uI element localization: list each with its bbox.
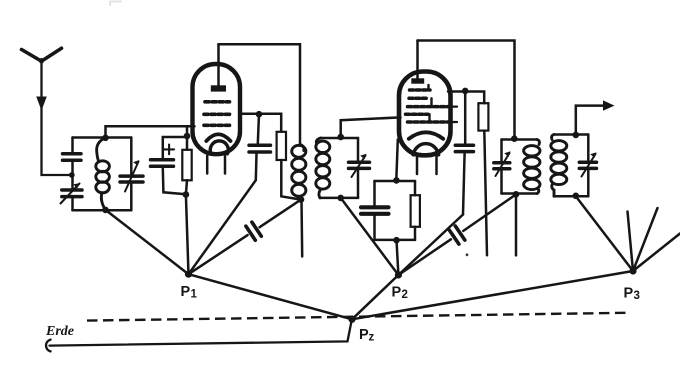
node L2 bottom — [298, 196, 305, 203]
resistor R4 — [411, 181, 420, 240]
wire R3 bottom stub — [484, 131, 487, 256]
capacitor C8 — [455, 91, 473, 215]
wire P1 to tank1 bottom — [106, 210, 189, 274]
earth lead — [46, 340, 51, 352]
grid rows U2 — [406, 90, 450, 122]
wire box2 bottom to P3 — [576, 196, 633, 271]
anode U1 — [211, 85, 226, 91]
wire P2 to tank2 bottom — [341, 198, 399, 275]
inductor L4 — [524, 140, 540, 194]
capacitor C5 — [249, 114, 271, 180]
node tank2 top — [337, 134, 344, 141]
wire P1 to C5 — [189, 180, 256, 274]
node tank2 bottom — [337, 195, 344, 202]
ink speck — [466, 253, 469, 256]
label Pz — [359, 327, 375, 344]
inductor L3 — [316, 138, 330, 198]
node screen U1 — [256, 111, 263, 118]
resistor R3 — [478, 103, 488, 130]
variable capacitor C7 — [349, 138, 370, 198]
IF box2 rails — [554, 135, 588, 197]
svg-text:P: P — [181, 284, 191, 300]
heater dome U1 — [210, 141, 228, 154]
capacitor C10 — [449, 226, 465, 244]
wire screen U2 — [448, 92, 484, 104]
wire P2 to C8 — [398, 215, 463, 276]
heater dome U2 — [413, 144, 438, 155]
wire stub B+ 2 — [515, 194, 518, 255]
wire P2 to Pz — [352, 275, 398, 319]
wire P1 to Pz — [189, 274, 353, 319]
heater pins U2 — [417, 156, 437, 174]
grid g1 row — [204, 102, 231, 126]
label P3 — [624, 286, 640, 303]
variable capacitor C3 — [120, 138, 143, 211]
inductor L1 — [96, 138, 110, 210]
wire R2 bottom — [281, 160, 301, 200]
tank 1 top rail — [73, 136, 132, 139]
resistor R2 — [277, 132, 286, 160]
label P2 — [392, 285, 408, 302]
node P2 — [395, 271, 402, 278]
wire P3 to Pz — [352, 271, 633, 319]
cathode U1 — [206, 134, 230, 141]
svg-text:P: P — [624, 286, 634, 302]
wire output arrow — [576, 106, 606, 135]
resistor R1 — [182, 136, 191, 194]
tank 1 bottom rail — [73, 209, 132, 212]
wire tank1 top to grid of U1 — [106, 126, 195, 138]
node box2 top — [573, 132, 580, 139]
capacitor C9 — [361, 181, 389, 240]
svg-text:P: P — [392, 285, 402, 301]
wire tank2 to grid U2 — [341, 117, 401, 138]
node RC2 top — [393, 177, 400, 184]
wire P2 to box1 bottom via C10 — [398, 194, 516, 275]
node P1 — [185, 271, 192, 278]
variable capacitor C12 — [579, 135, 596, 197]
svg-text:2: 2 — [402, 289, 408, 301]
capacitor C6 — [246, 222, 261, 240]
antenna — [22, 48, 72, 175]
heater pins U1 — [207, 156, 225, 174]
tank 1 : antenna coupling cap C1 — [63, 138, 82, 176]
node box2 bottom — [573, 193, 580, 200]
wire stub B+ 1 — [300, 200, 303, 257]
scan artifact — [110, 2, 121, 6]
wire anode U2 top rail — [418, 41, 515, 138]
node tank1 top — [102, 135, 109, 142]
node P3 — [629, 267, 636, 274]
inductor L5 — [551, 135, 567, 197]
node box1 top — [511, 135, 518, 142]
tank 2 bottom rail — [320, 197, 358, 200]
node antenna tap — [69, 172, 75, 178]
node screen U2 — [462, 88, 469, 95]
node cathode junction — [183, 191, 190, 198]
wire P1 to cathode junction — [186, 195, 189, 275]
node Pz — [348, 316, 355, 323]
cathode U2 — [409, 132, 443, 139]
inductor L2 plate coil — [292, 145, 306, 200]
node RC2 bottom — [393, 237, 400, 244]
variable capacitor C11 — [494, 140, 511, 194]
wire P3 stub a — [628, 212, 634, 272]
grid stubs U2 — [448, 107, 457, 122]
svg-text:P: P — [359, 327, 369, 343]
tank 2 top rail — [320, 137, 358, 140]
node grid-leak top — [184, 133, 191, 140]
node box1 bottom — [513, 191, 520, 198]
trimmer capacitor C2 — [61, 175, 83, 210]
node tank1 bottom — [102, 207, 109, 214]
svg-text:3: 3 — [634, 290, 640, 302]
svg-text:Erde: Erde — [45, 324, 74, 339]
wire P3 stub b — [633, 208, 658, 271]
electrolytic capacitor C4 — [151, 137, 188, 194]
svg-text:1: 1 — [191, 289, 198, 301]
grid RC box rails — [375, 181, 416, 240]
tube U2 — [399, 41, 457, 175]
wire P2 to RC2 bottom — [397, 240, 399, 275]
wire screen grid U1 — [240, 114, 281, 132]
anode U2 — [411, 78, 424, 83]
IF box1 rails — [502, 140, 538, 194]
cathode lead U2 — [396, 140, 398, 181]
wire P1 to L2 bottom via C6 — [189, 200, 302, 275]
label P1 — [181, 284, 198, 301]
wire tap to grid-leak — [186, 126, 189, 136]
chassis dashed line — [87, 313, 626, 321]
svg-text:z: z — [369, 332, 375, 344]
wire P3 stub c — [633, 234, 680, 272]
wire anode U1 top rail — [219, 44, 301, 145]
tube U1 — [193, 44, 241, 173]
